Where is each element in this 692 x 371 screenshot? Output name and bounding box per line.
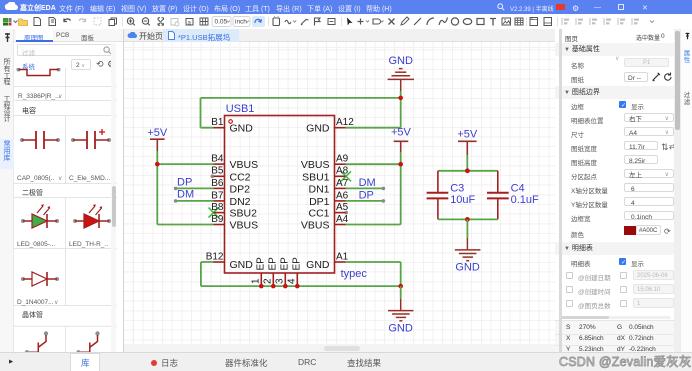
wire +5V cap stem <box>466 155 468 171</box>
svg-text:+5V: +5V <box>457 129 478 141</box>
wire +5V left stem <box>156 151 158 164</box>
svg-text:B1: B1 <box>211 117 224 128</box>
wire GND top junction down to A12 <box>346 98 401 128</box>
wire net DP (right) from A6 <box>346 200 384 202</box>
header row <box>565 33 578 43</box>
wire net GND top: junction to B1 via top-left <box>201 91 401 128</box>
wire A1 to bottom-right junction <box>346 262 401 286</box>
wire +5V to B4 <box>157 163 213 165</box>
pin B9 <box>214 224 225 226</box>
power +5V (left) <box>150 139 165 151</box>
pin A6 <box>335 200 346 202</box>
svg-text:B8: B8 <box>211 202 224 213</box>
unconnected pin marker A5 <box>344 211 348 215</box>
wire net DM (left) to B7 <box>176 200 214 202</box>
svg-text:10uF: 10uF <box>450 194 475 206</box>
明细表位置 row <box>571 115 604 125</box>
svg-text:A7: A7 <box>336 178 349 189</box>
panel tabs <box>14 29 123 42</box>
pin B6 <box>214 187 225 189</box>
pin B5 <box>214 175 225 177</box>
svg-text:EP: EP <box>268 257 279 271</box>
svg-text:A6: A6 <box>336 190 349 201</box>
pin A12 <box>335 127 346 129</box>
wire bottom rail <box>201 285 401 287</box>
capacitor CAP_0805 thumbnail <box>20 131 60 149</box>
wire +5V bus down to A4 <box>346 164 401 224</box>
svg-text:B12: B12 <box>206 251 224 262</box>
capacitor C_Ele_SMD thumbnail <box>71 129 111 149</box>
svg-text:4: 4 <box>287 278 298 284</box>
svg-text:DP: DP <box>177 176 192 188</box>
transistor thumbnail 1 <box>25 331 48 361</box>
图纸高度 row <box>571 157 597 167</box>
wire cap top rail <box>438 170 498 172</box>
pin B4 <box>214 163 225 165</box>
capacitor C3 <box>427 171 449 220</box>
svg-text:DM: DM <box>177 189 194 201</box>
node DP dangling end <box>174 187 178 191</box>
transistor thumbnail 2 <box>76 331 99 361</box>
svg-text:GND: GND <box>230 259 254 271</box>
@创建时间 row <box>566 286 573 293</box>
svg-text:typec: typec <box>341 268 368 280</box>
unconnected pin marker B5 <box>211 175 215 179</box>
junction at bottom-right GND node <box>398 284 403 289</box>
wire cap bottom rail <box>438 218 498 220</box>
wire +5V bus down to B9 <box>157 164 213 224</box>
svg-text:DP1: DP1 <box>309 196 330 208</box>
svg-text:DP2: DP2 <box>230 183 251 195</box>
svg-text:GND: GND <box>455 262 480 274</box>
section 基础属性 <box>555 43 675 56</box>
svg-text:GND: GND <box>306 259 330 271</box>
svg-text:+5V: +5V <box>147 127 168 139</box>
svg-text:A5: A5 <box>336 202 349 213</box>
svg-text:1: 1 <box>251 278 262 284</box>
component cells <box>14 68 124 371</box>
wire B12 to bottom rail <box>201 262 214 286</box>
svg-text:DN1: DN1 <box>308 183 329 195</box>
svg-text:VBUS: VBUS <box>230 220 259 232</box>
svg-text:0.1uF: 0.1uF <box>511 194 539 206</box>
svg-text:USB1: USB1 <box>226 103 255 115</box>
边框 row <box>571 101 584 111</box>
边框宽 row <box>571 213 591 223</box>
section 明细表 <box>555 242 675 255</box>
svg-text:EP: EP <box>256 257 267 271</box>
junction cap top <box>465 168 470 173</box>
wire net DP (left) to B6 <box>176 187 214 189</box>
junction at +5V/A9 node <box>398 162 403 167</box>
svg-text:VBUS: VBUS <box>301 220 330 232</box>
pin B1 <box>214 127 225 129</box>
pin B7 <box>214 200 225 202</box>
ground GND (top, flipped) <box>388 69 414 91</box>
svg-text:B5: B5 <box>211 166 224 177</box>
pin B12 <box>214 261 225 263</box>
pin EP 3 <box>284 273 286 286</box>
svg-text:+5V: +5V <box>391 126 412 138</box>
pin B1 style dot <box>229 120 233 124</box>
LED_0805 thumbnail (green) <box>21 204 59 228</box>
svg-text:CC2: CC2 <box>230 171 251 183</box>
svg-text:B4: B4 <box>211 154 224 165</box>
分区起点 row <box>571 171 597 181</box>
power +5V (capacitor branch) <box>458 141 477 155</box>
wire cap GND stem <box>466 219 468 238</box>
svg-text:A4: A4 <box>336 214 349 225</box>
尺寸 row <box>571 129 584 139</box>
LED_TH thumbnail (red) <box>73 204 111 228</box>
svg-text:GND: GND <box>388 55 413 67</box>
ground GND (bottom right) <box>388 299 413 321</box>
ground GND (capacitor branch) <box>455 238 481 261</box>
connector USB1 body <box>225 116 335 274</box>
svg-text:DN2: DN2 <box>230 196 251 208</box>
svg-text:GND: GND <box>388 323 413 335</box>
svg-text:VBUS: VBUS <box>230 159 259 171</box>
svg-text:SBU2: SBU2 <box>230 208 258 220</box>
pin A9 <box>335 163 346 165</box>
junction EP3 <box>283 284 288 289</box>
filter input <box>17 44 115 56</box>
pin A5 <box>335 212 346 214</box>
svg-text:EP: EP <box>292 257 303 271</box>
svg-text:B6: B6 <box>211 178 224 189</box>
power +5V (right) <box>394 141 409 152</box>
panel scrollbar <box>111 43 116 352</box>
junction at +5V/B4 node <box>155 162 160 167</box>
pin A7 <box>335 187 346 189</box>
wire +5V to A9 <box>346 163 401 165</box>
svg-text:DM: DM <box>359 177 376 189</box>
junction EP1 <box>259 284 264 289</box>
diode D_1N4007 thumbnail <box>21 272 59 286</box>
section 图纸边界 <box>555 86 675 99</box>
junction at top GND node <box>398 96 403 101</box>
wire bottom GND stem <box>400 286 402 299</box>
svg-text:CC1: CC1 <box>308 208 329 220</box>
pin EP 2 <box>272 273 274 286</box>
svg-text:DP: DP <box>359 189 374 201</box>
wire +5V right stem <box>400 152 402 164</box>
node DP right dangling end <box>382 199 386 203</box>
@创建日期 row <box>566 272 573 279</box>
pin EP 1 <box>260 273 262 286</box>
pin A4 <box>335 224 346 226</box>
svg-text:A8: A8 <box>336 166 349 177</box>
junction EP2 <box>271 284 276 289</box>
resistor R_3386P thumbnail <box>17 68 61 76</box>
wire net DM (right) from A7 <box>346 187 384 189</box>
pin A8 <box>335 175 346 177</box>
svg-text:B7: B7 <box>211 190 224 201</box>
capacitor C4 <box>487 171 509 220</box>
X轴分区数量 row <box>571 185 608 195</box>
svg-text:GND: GND <box>306 123 330 135</box>
svg-text:2: 2 <box>263 278 274 284</box>
cell borders <box>14 68 117 371</box>
svg-text:VBUS: VBUS <box>301 159 330 171</box>
图纸 row <box>571 74 584 84</box>
明细表 row <box>571 258 591 268</box>
pin A1 <box>335 261 346 263</box>
svg-text:C3: C3 <box>450 182 464 194</box>
svg-text:EP: EP <box>280 257 291 271</box>
node DM dangling end <box>174 199 178 203</box>
junction cap bottom <box>465 217 470 222</box>
@图页总数 row <box>566 300 573 307</box>
svg-text:C4: C4 <box>511 182 525 194</box>
system row <box>22 61 35 71</box>
no-connect flag on pin A8 <box>341 171 351 181</box>
颜色 row <box>571 229 584 239</box>
svg-text:A9: A9 <box>336 154 349 165</box>
svg-text:A1: A1 <box>336 251 349 262</box>
svg-text:GND: GND <box>230 123 254 135</box>
Y轴分区数量 row <box>571 199 608 209</box>
pin EP 4 <box>296 273 298 286</box>
svg-text:SBU1: SBU1 <box>302 171 330 183</box>
mini scrollbar <box>559 316 671 319</box>
junction EP4 <box>295 284 300 289</box>
名称 row <box>571 60 584 70</box>
status rows <box>555 320 675 352</box>
pin B8 <box>214 212 225 214</box>
svg-text:3: 3 <box>275 278 286 284</box>
no-connect flag on pin B8 <box>209 208 219 218</box>
node DM right dangling end <box>382 187 386 191</box>
图纸宽度 row <box>571 143 597 153</box>
svg-text:A12: A12 <box>336 117 354 128</box>
svg-text:B9: B9 <box>211 214 224 225</box>
